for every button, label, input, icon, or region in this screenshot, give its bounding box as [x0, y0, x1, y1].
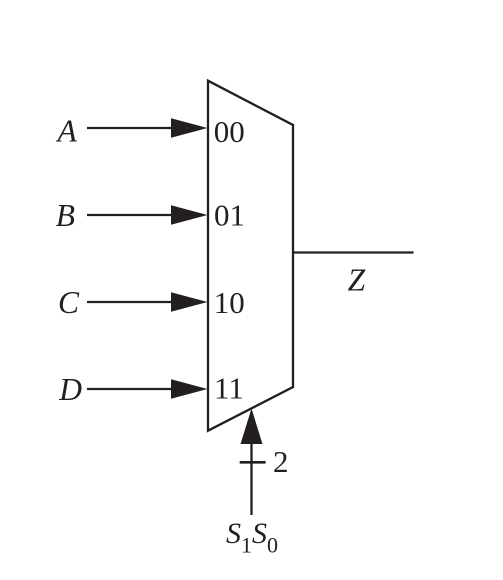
arrowhead B	[171, 205, 208, 225]
wire B	[87, 214, 175, 216]
select arrowhead	[241, 409, 263, 445]
wire D	[87, 388, 175, 390]
arrowhead D	[171, 379, 208, 399]
bus-width tick	[240, 461, 266, 464]
svg-text:B: B	[56, 198, 75, 233]
svg-text:11: 11	[214, 370, 244, 405]
output wire Z	[293, 251, 414, 253]
svg-text:A: A	[56, 114, 78, 149]
select wire S	[250, 442, 252, 515]
svg-text:00: 00	[214, 114, 245, 149]
svg-text:10: 10	[214, 285, 245, 320]
svg-text:01: 01	[214, 198, 245, 233]
svg-text:Z: Z	[348, 262, 366, 297]
arrowhead C	[171, 292, 208, 312]
svg-text:D: D	[58, 372, 82, 407]
svg-text:2: 2	[273, 444, 289, 479]
svg-text:S1S0: S1S0	[226, 517, 278, 558]
arrowhead A	[171, 118, 208, 138]
wire C	[87, 301, 175, 303]
wire A	[87, 127, 175, 129]
svg-text:C: C	[58, 285, 80, 320]
multiplexer body U1 (trapezoid)	[208, 81, 293, 431]
